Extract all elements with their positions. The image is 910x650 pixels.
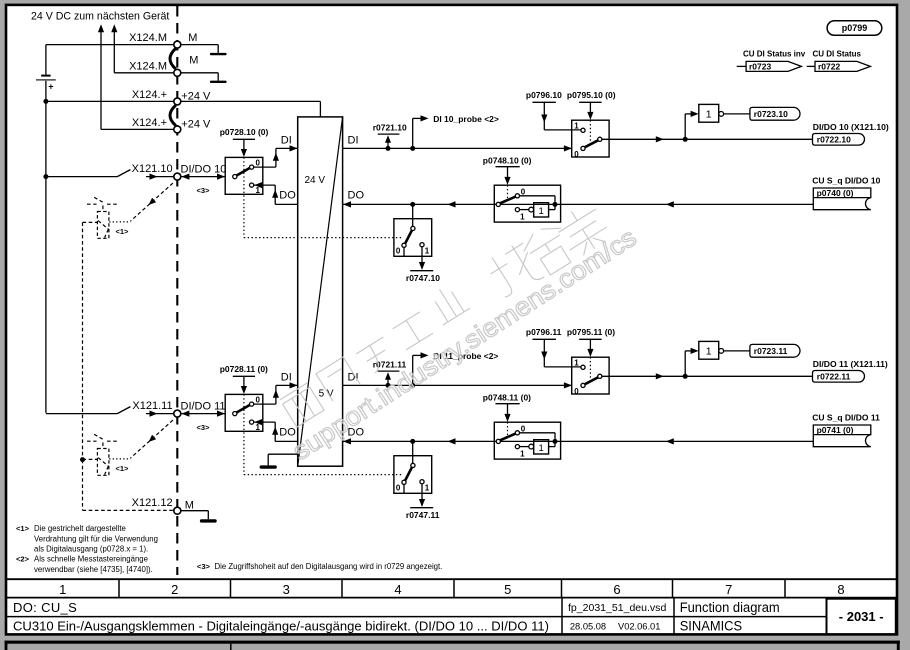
- sensor S10 dashed box: [102, 206, 104, 212]
- svg-text:DI: DI: [281, 372, 292, 384]
- arrow DI into p0795.10: [564, 145, 572, 151]
- inverter U11: [699, 341, 719, 359]
- switch p0728.10 lever: [237, 168, 250, 176]
- svg-text:DI 10_probe <2>: DI 10_probe <2>: [433, 114, 499, 124]
- wire X124.M row 2: [114, 72, 174, 74]
- wire left rail: [45, 81, 47, 413]
- svg-text:28.05.08: 28.05.08: [570, 622, 606, 632]
- dotted control p0748.11: [507, 422, 509, 436]
- wire DO 11 line: [343, 440, 814, 442]
- svg-text:DI: DI: [281, 135, 292, 147]
- svg-text:p0795.11 (0): p0795.11 (0): [567, 327, 615, 337]
- svg-text:SINAMICS: SINAMICS: [680, 618, 742, 633]
- svg-text:<3>: <3>: [197, 423, 211, 432]
- terminal circle X121.11: [174, 410, 181, 417]
- svg-text:1: 1: [425, 483, 430, 492]
- svg-text:V02.06.01: V02.06.01: [618, 622, 660, 632]
- svg-text:0: 0: [256, 159, 261, 168]
- switch p0795.11 lever: [585, 377, 598, 384]
- switch p0795.10 lever: [585, 140, 598, 147]
- svg-text:r0722.11: r0722.11: [817, 372, 851, 382]
- svg-text:1: 1: [574, 358, 579, 367]
- svg-text:r0723: r0723: [749, 62, 771, 72]
- svg-text:0: 0: [256, 396, 261, 405]
- svg-text:1: 1: [706, 109, 712, 121]
- readout r0747.11: [421, 484, 423, 502]
- module box 24V/5V U1: [298, 117, 343, 466]
- terminal circle X124.M 2: [174, 69, 181, 76]
- svg-text:DO: CU_S: DO: CU_S: [13, 600, 77, 615]
- switch p0748.11 box: [494, 422, 560, 459]
- svg-text:1: 1: [706, 346, 712, 358]
- svg-text:4: 4: [394, 582, 401, 597]
- terminal circle X124.M 1: [174, 41, 181, 48]
- inverter U10: [699, 104, 719, 122]
- readout r0747.10: [421, 247, 423, 265]
- dotted control line p0728.10: [243, 157, 245, 237]
- switch p0795.10 box: [572, 120, 609, 157]
- svg-text:1: 1: [59, 582, 66, 597]
- svg-text:p0799: p0799: [842, 23, 868, 33]
- svg-text:DO: DO: [348, 190, 365, 202]
- svg-text:0: 0: [396, 483, 401, 492]
- sensor S11 dashed box: [102, 443, 104, 449]
- svg-text:1: 1: [539, 206, 544, 217]
- output connector r0722.11: [813, 371, 865, 383]
- svg-text:5: 5: [504, 582, 511, 597]
- wire DO 10 line: [343, 203, 814, 205]
- svg-text:p0748.11 (0): p0748.11 (0): [483, 392, 531, 402]
- svg-text:p0728.10 (0): p0728.10 (0): [220, 127, 269, 137]
- switch r0747.11 box: [412, 441, 414, 463]
- switch p0728.11 lever: [237, 405, 250, 413]
- svg-text:Verdrahtung gilt für die Verwe: Verdrahtung gilt für die Verwendung: [34, 534, 158, 543]
- wire arrow up to next device 1: [100, 32, 102, 129]
- svg-text:DI: DI: [348, 135, 359, 147]
- dashed wire sensor to M rail ch11: [83, 458, 98, 460]
- svg-text:p0795.10 (0): p0795.10 (0): [567, 90, 616, 100]
- readout r0721.10: [387, 142, 389, 148]
- svg-text:0: 0: [396, 246, 401, 255]
- switch p0728.11 box: [225, 394, 263, 431]
- wire into terminal X121.10: [146, 176, 174, 178]
- svg-text:<3>: <3>: [197, 186, 211, 195]
- wire p0728.10 to module DI: [254, 166, 276, 168]
- probe branch DI 10: [412, 118, 414, 148]
- svg-text:M: M: [188, 32, 197, 44]
- svg-text:fp_2031_51_deu.vsd: fp_2031_51_deu.vsd: [568, 602, 666, 614]
- contact lever at X121.11: [117, 407, 130, 414]
- svg-text:als Digitalausgang (p0728.x =: als Digitalausgang (p0728.x = 1).: [34, 545, 148, 554]
- svg-text:1: 1: [256, 186, 261, 195]
- svg-text:2: 2: [171, 582, 178, 597]
- svg-text:Als schnelle Messtastereingäng: Als schnelle Messtastereingänge: [34, 555, 148, 564]
- svg-text:r0747.10: r0747.10: [406, 273, 440, 283]
- parameter box p0799: [827, 21, 882, 36]
- svg-text:CU S_q DI/DO 11: CU S_q DI/DO 11: [812, 412, 880, 422]
- terminal circle X121.12: [174, 507, 181, 514]
- svg-text:p0748.10 (0): p0748.10 (0): [483, 155, 532, 165]
- readout r0721.11: [387, 379, 389, 385]
- terminal circle X124.+ 1: [174, 98, 181, 105]
- svg-text:X124.+: X124.+: [132, 117, 167, 129]
- switch r0747.11 lever: [405, 467, 412, 480]
- ground at X124.M 2: [181, 72, 219, 74]
- inverter branch ch11: [684, 351, 686, 376]
- svg-text:0: 0: [574, 387, 579, 396]
- output connector r0723.11: [750, 344, 800, 357]
- svg-text:Die gestrichelt dargestellte: Die gestrichelt dargestellte: [34, 524, 126, 533]
- svg-text:X121.10: X121.10: [132, 163, 173, 175]
- output connector r0723.10: [750, 107, 800, 120]
- svg-text:Die Zugriffshoheit auf den Dig: Die Zugriffshoheit auf den Digitalausgan…: [215, 562, 443, 571]
- svg-text:1: 1: [425, 246, 430, 255]
- svg-text:CU DI Status: CU DI Status: [813, 50, 862, 59]
- terminal circle X121.10: [174, 173, 181, 180]
- inverter in p0748.11: [520, 446, 529, 448]
- signal tag r0723: [737, 65, 746, 67]
- svg-text:X124.M: X124.M: [129, 32, 167, 44]
- switch r0747.10 lever: [405, 230, 412, 243]
- svg-text:24 V: 24 V: [305, 175, 326, 186]
- svg-text:r0722.10: r0722.10: [817, 135, 851, 145]
- svg-text:r0723.10: r0723.10: [754, 109, 788, 119]
- svg-text:1: 1: [256, 423, 261, 432]
- next page frame top: [5, 641, 900, 644]
- svg-text:X124.M: X124.M: [129, 60, 167, 72]
- svg-text:DO: DO: [279, 190, 296, 202]
- switch p0795.11 box: [572, 357, 609, 394]
- input connector p0740 (0): [813, 188, 871, 210]
- svg-text:6: 6: [613, 582, 620, 597]
- dashed wire sensor to M rail ch10: [83, 221, 98, 223]
- footer table lines: [6, 578, 897, 580]
- dotted control p0748.10: [507, 185, 509, 199]
- wire +24V rail to module: [181, 100, 321, 102]
- svg-text:+24 V: +24 V: [181, 118, 211, 130]
- wire DI 10 line: [343, 147, 572, 149]
- svg-text:p0741 (0): p0741 (0): [817, 425, 854, 435]
- wire X124.+ row 1: [46, 100, 174, 102]
- svg-text:Function diagram: Function diagram: [680, 600, 780, 615]
- output connector r0722.10: [813, 134, 865, 146]
- svg-text:r0722: r0722: [818, 62, 840, 72]
- dashed sensor contact ch11: [87, 440, 97, 442]
- svg-text:DI/DO 11 (X121.11): DI/DO 11 (X121.11): [813, 359, 888, 369]
- svg-text:CU S_q DI/DO 10: CU S_q DI/DO 10: [812, 175, 880, 185]
- svg-text:X121.11: X121.11: [132, 400, 172, 412]
- svg-text:+24 V: +24 V: [181, 90, 211, 102]
- wire p0795.10 output: [602, 138, 813, 140]
- svg-text:<1>: <1>: [16, 524, 30, 533]
- terminal circle X124.+ 2: [174, 126, 181, 133]
- dotted control p0795.11: [589, 357, 591, 378]
- wire arrow up to next device 2: [113, 32, 115, 73]
- svg-text:CU310 Ein-/Ausgangsklemmen - D: CU310 Ein-/Ausgangsklemmen - Digitaleing…: [13, 619, 549, 634]
- dotted control line p0728.11: [243, 394, 245, 474]
- svg-text:r0721.10: r0721.10: [373, 123, 407, 133]
- svg-text:X121.12: X121.12: [132, 497, 173, 509]
- device boundary dashed line: [176, 6, 178, 575]
- signal tag r0722: [807, 65, 815, 67]
- svg-text:p0796.11: p0796.11: [526, 327, 562, 337]
- svg-text:<1>: <1>: [116, 227, 130, 236]
- wire module DO to p0728.11: [275, 440, 298, 442]
- inverter branch ch10: [684, 114, 686, 139]
- svg-text:1: 1: [539, 443, 544, 454]
- wire 0-contact p0748.10: [520, 195, 556, 197]
- svg-text:r0723.11: r0723.11: [754, 346, 788, 356]
- svg-text:8: 8: [837, 582, 844, 597]
- dotted control p0795.10: [589, 120, 591, 141]
- svg-text:0: 0: [574, 150, 579, 159]
- svg-text:DI/DO 11: DI/DO 11: [181, 400, 226, 412]
- svg-text:1: 1: [520, 213, 525, 222]
- ground at X124.M 1: [181, 44, 219, 46]
- wire p0728.11 to module DI: [254, 403, 276, 405]
- dashed wiring to sensor ch10: [131, 183, 173, 221]
- svg-text:<2>: <2>: [16, 555, 30, 564]
- wire 0-contact p0748.11: [520, 432, 556, 434]
- ground at X121.12: [200, 519, 217, 522]
- switch p0748.10 lever: [500, 197, 516, 204]
- svg-text:<1>: <1>: [116, 464, 130, 473]
- svg-text:CU DI Status inv: CU DI Status inv: [743, 50, 806, 59]
- svg-text:M: M: [185, 500, 194, 512]
- svg-text:1: 1: [574, 121, 579, 130]
- wire X124.+ row 2: [101, 128, 174, 130]
- svg-text:p0728.11 (0): p0728.11 (0): [220, 364, 268, 374]
- svg-text:24 V DC zum nächsten Gerät: 24 V DC zum nächsten Gerät: [31, 11, 169, 23]
- svg-text:r0747.11: r0747.11: [406, 510, 440, 520]
- dashed wiring to sensor ch11: [131, 420, 173, 458]
- bidirectional wire terminal to switch p0728.10: [181, 176, 225, 178]
- wire DI 11 line: [343, 384, 572, 386]
- switch r0747.10 box: [412, 204, 414, 226]
- module ground stub: [268, 453, 298, 455]
- terminal X121.10 input wire: [46, 176, 117, 178]
- input connector p0741 (0): [813, 425, 871, 447]
- svg-text:3: 3: [283, 582, 290, 597]
- switch p0748.10 box: [494, 185, 560, 222]
- wire X124.M row 1: [46, 44, 174, 46]
- module diagonal divider: [298, 117, 343, 466]
- svg-text:7: 7: [725, 582, 732, 597]
- svg-text:p0740 (0): p0740 (0): [817, 188, 854, 198]
- svg-text:X124.+: X124.+: [132, 89, 167, 101]
- svg-text:<3>: <3>: [197, 562, 211, 571]
- svg-text:M: M: [189, 54, 198, 66]
- footer page number box: [827, 599, 896, 635]
- terminal X121.11 input wire: [46, 413, 117, 415]
- dashed sensor contact ch10: [87, 203, 97, 205]
- wire module DO to p0728.10: [275, 203, 298, 205]
- switch p0748.11 lever: [500, 434, 516, 441]
- jumper arc X124.+ pair: [170, 105, 176, 125]
- probe branch DI 11: [412, 355, 414, 385]
- wire p0795.11 output: [602, 375, 813, 377]
- wire X121.12 to ground: [181, 510, 209, 512]
- jumper arc X124.M pair: [170, 48, 176, 69]
- svg-text:DI/DO 10: DI/DO 10: [181, 163, 227, 175]
- svg-text:verwendbar (siehe [4735], [474: verwendbar (siehe [4735], [4740]).: [34, 565, 153, 574]
- contact lever at X121.10: [117, 170, 130, 177]
- switch p0728.10 box: [225, 157, 263, 194]
- ground at module: [260, 465, 277, 468]
- arrow DI into p0795.11: [564, 382, 572, 388]
- watermark: [280, 200, 642, 466]
- svg-text:p0796.10: p0796.10: [526, 90, 562, 100]
- svg-text:+: +: [48, 82, 53, 92]
- battery B1: [45, 45, 47, 75]
- svg-text:1: 1: [520, 450, 525, 459]
- terminal X121.12 dashed wiring: [82, 222, 84, 459]
- wire into terminal X121.11: [146, 413, 174, 415]
- svg-text:DI/DO 10 (X121.10): DI/DO 10 (X121.10): [813, 122, 889, 132]
- bidirectional wire terminal to switch p0728.11: [181, 413, 225, 415]
- svg-text:- 2031 -: - 2031 -: [839, 609, 884, 624]
- inverter in p0748.10: [520, 209, 529, 211]
